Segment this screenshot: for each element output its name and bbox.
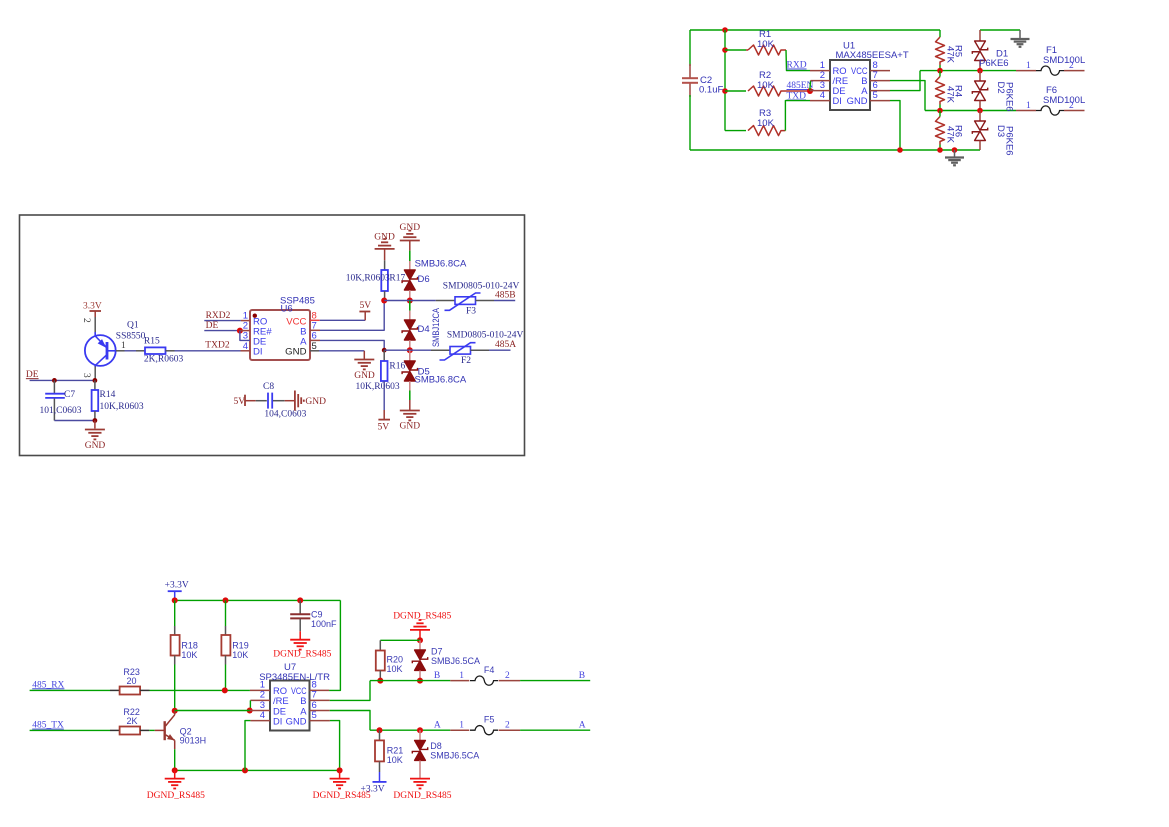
svg-text:47K: 47K — [945, 46, 956, 64]
wire R3 right to pin4 — [784, 130, 785, 132]
wire B out — [330, 681, 370, 701]
ground DGND_RS485 at D8 — [410, 778, 430, 780]
svg-text:U6: U6 — [281, 304, 293, 315]
ground GND below D5 — [409, 400, 411, 411]
wire R2 left lead — [725, 90, 746, 92]
svg-text:10K: 10K — [757, 39, 775, 50]
svg-text:10K: 10K — [757, 80, 775, 91]
diode D5 (TVS) — [409, 350, 411, 361]
svg-text:SMBJ6.8CA: SMBJ6.8CA — [415, 259, 467, 270]
svg-text:2: 2 — [1069, 101, 1074, 111]
svg-text:10K: 10K — [757, 118, 775, 129]
svg-text:5V: 5V — [234, 397, 246, 407]
border frame — [20, 215, 525, 456]
svg-text:10K,R0603: 10K,R0603 — [356, 382, 400, 392]
pin 7 B of U7 — [310, 699, 330, 701]
wire pin2 diagonal — [809, 81, 812, 91]
ground GND below R14 — [94, 421, 96, 429]
node junction R14 bottom — [93, 418, 98, 423]
wire A pin to line1 — [890, 71, 920, 91]
resistor R21 — [379, 730, 381, 740]
wire R19 bottom to pin1 — [225, 665, 227, 691]
resistor R6 — [936, 117, 945, 145]
svg-text:1: 1 — [1026, 101, 1031, 111]
svg-text:SMD100L: SMD100L — [1043, 95, 1085, 106]
svg-text:9013H: 9013H — [180, 736, 207, 746]
wire DI down — [245, 721, 250, 771]
power port +3.3V bottom — [379, 772, 381, 782]
resistor R14 — [94, 380, 96, 390]
svg-text:5V: 5V — [360, 301, 372, 311]
resistor R20 — [379, 640, 381, 650]
node junction A-D8 — [417, 727, 423, 733]
pin 3 DE of U7 — [250, 710, 270, 712]
wire A out — [330, 711, 370, 731]
wire B to edge — [520, 680, 590, 682]
pin 1 RO — [810, 70, 830, 72]
capacitor C9 — [299, 600, 301, 613]
capacitor C2 — [689, 64, 691, 78]
svg-text:0.1uF: 0.1uF — [699, 85, 723, 96]
pin 6 A of U7 — [310, 710, 330, 712]
svg-text:C9: C9 — [311, 610, 323, 620]
svg-text:SP3485EN-L/TR: SP3485EN-L/TR — [259, 672, 330, 683]
wire RE-DE bend U7 — [249, 700, 251, 710]
node junction R1 left — [722, 47, 728, 53]
node junction C7 tap — [52, 378, 57, 383]
svg-text:SMBJ12CA: SMBJ12CA — [431, 307, 442, 347]
svg-text:10K,R0603: 10K,R0603 — [100, 402, 144, 412]
pin 5 GND of U7 — [310, 720, 330, 722]
wire R16 to 5V — [383, 381, 385, 410]
transistor Q1 — [85, 335, 116, 366]
svg-text:P6KE6: P6KE6 — [979, 58, 1009, 69]
node junction rail-C9 — [297, 597, 303, 603]
pin 8 VCC of U6 — [310, 319, 320, 321]
svg-text:+3.3V: +3.3V — [361, 785, 385, 795]
pin 5 GND — [870, 100, 890, 102]
node junction gnd tap — [952, 147, 958, 153]
svg-text:SMBJ6.5CA: SMBJ6.5CA — [430, 751, 479, 761]
resistor R4 — [936, 77, 945, 105]
svg-text:10K,R0603: 10K,R0603 — [346, 274, 390, 284]
svg-text:D6: D6 — [418, 274, 430, 285]
wire D1 top — [980, 29, 1020, 31]
wire B to 485B — [320, 301, 384, 331]
svg-text:5: 5 — [312, 710, 317, 721]
wire VCC top rail — [690, 29, 940, 31]
fuse F3 — [436, 300, 455, 302]
svg-text:SMBJ6.5CA: SMBJ6.5CA — [431, 656, 480, 666]
svg-text:20: 20 — [127, 676, 137, 686]
diode D8 (TVS) — [419, 730, 421, 740]
wire A line — [370, 729, 450, 731]
svg-text:1: 1 — [121, 341, 126, 351]
wire Q2 collector — [174, 711, 176, 715]
wire RE-DE bend — [240, 331, 250, 341]
svg-text:10K: 10K — [181, 650, 197, 660]
resistor R1 — [748, 45, 784, 55]
node junction DI-rail — [242, 767, 248, 773]
svg-text:GND: GND — [400, 422, 421, 432]
ground bottom (U1 section) — [954, 150, 956, 157]
svg-text:P6KE6: P6KE6 — [1003, 126, 1014, 156]
node junction DE-RE U7 — [247, 708, 253, 714]
wire DE — [30, 379, 95, 381]
svg-text:SMBJ6.8CA: SMBJ6.8CA — [415, 374, 467, 385]
svg-text:SS8550: SS8550 — [116, 332, 146, 342]
svg-text:R14: R14 — [100, 390, 116, 400]
svg-text:GND: GND — [374, 233, 395, 243]
resistor R23 — [110, 689, 120, 691]
wire 485A label stub — [489, 349, 511, 351]
svg-text:DI: DI — [253, 346, 263, 357]
svg-text:C8: C8 — [263, 382, 274, 392]
node junction RE-DE — [237, 328, 243, 334]
svg-text:GND: GND — [85, 441, 106, 451]
svg-text:F4: F4 — [484, 665, 495, 675]
fuse F1 — [1016, 70, 1036, 72]
svg-text:100nF: 100nF — [311, 619, 337, 629]
wire line2 485A — [925, 110, 1016, 112]
wire 485A — [384, 349, 431, 351]
svg-text:DGND_RS485: DGND_RS485 — [393, 612, 451, 622]
wire green seg below D5 — [409, 391, 411, 401]
wire A to 485A — [320, 340, 384, 350]
transistor Q2 — [155, 729, 164, 731]
svg-text:2: 2 — [505, 721, 510, 731]
node junction R5 bottom — [937, 68, 943, 74]
ground GND at U6 pin5 — [363, 351, 365, 359]
wire top rail — [175, 599, 341, 601]
wire Q1 to R15 — [125, 350, 137, 352]
wire green seg above D6 — [409, 251, 411, 261]
svg-text:GND: GND — [286, 715, 307, 726]
svg-text:2K: 2K — [127, 716, 138, 726]
fuse F4 — [450, 680, 469, 682]
resistor R2 — [748, 86, 784, 96]
svg-text:47K: 47K — [945, 126, 956, 144]
svg-text:DE: DE — [206, 321, 219, 331]
wire B pin to line2 — [890, 81, 925, 111]
node junction R4 bottom — [937, 108, 943, 114]
svg-text:RXD: RXD — [787, 61, 807, 71]
node junction B-R20 — [377, 678, 383, 684]
svg-text:D8: D8 — [430, 741, 442, 751]
svg-text:DGND_RS485: DGND_RS485 — [393, 791, 451, 801]
wire R18 top — [174, 600, 176, 626]
wire R1 right to pin1 — [784, 49, 786, 51]
wire A to edge — [520, 729, 590, 731]
wire B line — [370, 680, 450, 682]
wire VCC up to rail — [329, 600, 340, 690]
ground DGND_RS485 mid — [339, 770, 341, 778]
resistor R22 — [110, 729, 120, 731]
svg-text:D4: D4 — [418, 324, 430, 335]
svg-text:F3: F3 — [466, 307, 476, 317]
svg-text:10K: 10K — [387, 755, 403, 765]
capacitor C8 — [256, 400, 267, 402]
svg-text:DI: DI — [833, 95, 842, 106]
wire 485B label stub — [494, 300, 515, 302]
capacitor C7 — [53, 380, 55, 393]
resistor R3 — [748, 126, 784, 136]
svg-text:GND: GND — [305, 397, 326, 407]
wire RXD2 — [204, 320, 241, 322]
svg-text:RXD2: RXD2 — [206, 311, 231, 321]
svg-text:R15: R15 — [144, 336, 160, 346]
pin 1 of Q1 — [116, 350, 125, 352]
resistor R16 — [383, 350, 385, 361]
svg-text:4: 4 — [243, 341, 248, 352]
node junction rail-R19 — [223, 597, 229, 603]
pin 3 DE — [810, 90, 830, 92]
wire C2 bottom to GND rail — [689, 95, 691, 150]
wire 485_TX — [30, 729, 110, 731]
svg-text:2K,R0603: 2K,R0603 — [144, 355, 184, 365]
svg-text:5: 5 — [312, 341, 317, 352]
resistor R18 — [174, 626, 176, 635]
svg-text:R21: R21 — [387, 746, 404, 756]
diode D6 (TVS) — [409, 261, 411, 270]
svg-text:C7: C7 — [64, 390, 75, 400]
svg-text:104,C0603: 104,C0603 — [264, 410, 306, 420]
ground top-right — [1019, 30, 1021, 39]
pin 3 of Q1 — [94, 367, 96, 381]
power port 5V bottom — [383, 410, 385, 420]
svg-text:Q1: Q1 — [127, 321, 139, 331]
svg-text:47K: 47K — [945, 86, 956, 104]
svg-text:4: 4 — [820, 90, 825, 101]
wire 485_RX — [30, 689, 110, 691]
node junction R6 bottom — [937, 147, 943, 153]
wire R3 left lead — [725, 130, 746, 132]
wire left vertical to C2 — [689, 30, 691, 66]
wire C7 bottom to R14 — [54, 420, 95, 422]
svg-text:1: 1 — [459, 721, 464, 731]
svg-text:1: 1 — [459, 671, 464, 681]
wire VCC to 5V — [320, 319, 366, 321]
svg-text:3.3V: 3.3V — [83, 302, 102, 312]
svg-text:GND: GND — [354, 371, 375, 381]
diode D2 (TVS) — [979, 71, 981, 81]
wire R2 right to pin3 — [784, 90, 810, 92]
node junction gnd-rail U7 — [337, 767, 343, 773]
svg-text:R17: R17 — [389, 274, 405, 284]
node junction 485A-D4 — [407, 347, 413, 353]
svg-text:B: B — [579, 671, 585, 681]
node junction B-D7 — [417, 678, 423, 684]
resistor R15 — [136, 350, 145, 352]
wire line1 485B — [920, 70, 1016, 72]
svg-text:SMD100L: SMD100L — [1043, 55, 1085, 66]
wire R18 bottom to DE node — [174, 665, 176, 711]
svg-text:A: A — [579, 721, 586, 731]
svg-text:F2: F2 — [461, 356, 471, 366]
ground GND at C8 — [285, 400, 294, 402]
node junction emitter-rail — [172, 767, 178, 773]
pin 4 DI of U7 — [250, 720, 270, 722]
svg-text:485A: 485A — [495, 340, 516, 350]
svg-text:485_RX: 485_RX — [32, 680, 64, 690]
svg-text:1: 1 — [1026, 61, 1031, 71]
node junction 485A-R16 — [382, 348, 387, 353]
pin 8 VCC — [870, 70, 890, 72]
wire bottom rail — [175, 769, 340, 771]
node junction R2 left — [722, 88, 728, 94]
svg-text:A: A — [434, 721, 441, 731]
svg-text:R16: R16 — [389, 362, 405, 372]
node junction 485B-D6 — [407, 298, 413, 304]
resistor R17 — [384, 260, 386, 270]
diode D3 (TVS) — [979, 111, 981, 122]
svg-text:DE: DE — [26, 370, 39, 380]
svg-text:485B: 485B — [495, 290, 516, 300]
pin 2 of Q1 — [94, 317, 96, 334]
svg-text:TXD2: TXD2 — [205, 341, 230, 351]
svg-text:R20: R20 — [387, 655, 404, 665]
node junction D1 bottom — [977, 68, 983, 74]
wire DE to U6 — [204, 330, 240, 332]
pin 2 /RE of U7 — [250, 699, 270, 701]
fuse F6 — [1016, 110, 1036, 112]
wire R19 top — [225, 600, 227, 626]
node junction DE node — [172, 708, 178, 714]
pin 4 DI — [810, 100, 830, 102]
resistor R5 — [939, 30, 941, 37]
wire Q2 emitter down — [174, 740, 176, 749]
fuse F5 — [450, 729, 469, 731]
svg-text:2: 2 — [505, 671, 510, 681]
svg-text:DGND_RS485: DGND_RS485 — [273, 650, 331, 660]
svg-text:GND: GND — [285, 346, 306, 357]
wire DE to U7 — [175, 710, 250, 712]
svg-text:B: B — [434, 671, 440, 681]
wire TXD2 — [241, 350, 251, 352]
node junction D2 bottom — [977, 108, 983, 114]
svg-text:485_TX: 485_TX — [32, 721, 64, 731]
node junction R19-pin1 — [222, 687, 228, 693]
wire 485B — [384, 300, 436, 302]
op-amp U1 body — [830, 60, 870, 110]
svg-text:+3.3V: +3.3V — [165, 580, 189, 590]
svg-text:GND: GND — [847, 95, 868, 106]
pin 6 A of U6 — [310, 339, 320, 341]
svg-text:3: 3 — [81, 373, 91, 378]
wire R20 top link — [380, 639, 420, 641]
svg-text:4: 4 — [260, 710, 265, 721]
pin 7 B — [870, 80, 890, 82]
svg-text:10K: 10K — [232, 650, 248, 660]
diode D4 (TVS) — [409, 301, 411, 311]
svg-text:5V: 5V — [378, 423, 390, 433]
wire GND pin down — [890, 101, 900, 150]
svg-text:101,C0603: 101,C0603 — [40, 406, 82, 416]
node junction pin3-TXD — [807, 88, 813, 94]
node junction A-R21 — [377, 727, 383, 733]
wire R22 to Q2 — [149, 729, 154, 731]
wire R1 left lead — [725, 49, 746, 51]
pin 1 RO of U6 — [241, 320, 250, 322]
pin 1 RO of U7 — [250, 689, 270, 691]
pin 8 VCC of U7 — [310, 689, 330, 691]
op-amp U6 body — [250, 310, 310, 360]
node junction rail-R18 — [172, 597, 178, 603]
svg-text:2: 2 — [1069, 61, 1074, 71]
op-amp U7 body — [270, 681, 310, 731]
wire GND down — [330, 721, 340, 771]
svg-text:F5: F5 — [484, 715, 495, 725]
diode D1 (TVS) — [979, 30, 981, 41]
pin 5 GND of U6 — [310, 350, 319, 352]
fuse F2 — [431, 349, 450, 351]
node junction top-left — [722, 27, 728, 33]
resistor R19 — [225, 626, 227, 635]
wire bottom rail — [690, 149, 980, 151]
node junction Q1-R14 — [93, 378, 98, 383]
node junction 485B-R17 — [381, 298, 387, 304]
svg-text:P6KE6: P6KE6 — [1003, 82, 1014, 112]
ground DGND_RS485 left — [174, 770, 176, 778]
svg-text:DI: DI — [273, 715, 282, 726]
pin 7 B of U6 — [310, 329, 320, 331]
svg-text:10K: 10K — [387, 664, 403, 674]
svg-text:DGND_RS485: DGND_RS485 — [147, 791, 205, 801]
wire bus vertical — [724, 30, 726, 131]
diode D7 (TVS) — [419, 640, 421, 650]
ground DGND_RS485 at C9 — [299, 631, 301, 639]
pin 6 A — [870, 90, 890, 92]
node junction gnd-rail — [897, 147, 903, 153]
power port 5V at U6 — [364, 312, 366, 320]
node junction D7 top — [417, 637, 423, 643]
svg-text:D7: D7 — [431, 647, 443, 657]
wire GND pin — [319, 350, 364, 352]
svg-text:5: 5 — [873, 90, 878, 101]
pin 2 /RE of U6 — [240, 330, 250, 332]
wire R15 to TXD2 — [175, 350, 241, 352]
wire R23 to pin1 — [150, 689, 250, 691]
svg-text:2: 2 — [81, 318, 91, 323]
pin 2 /RE — [811, 80, 830, 82]
